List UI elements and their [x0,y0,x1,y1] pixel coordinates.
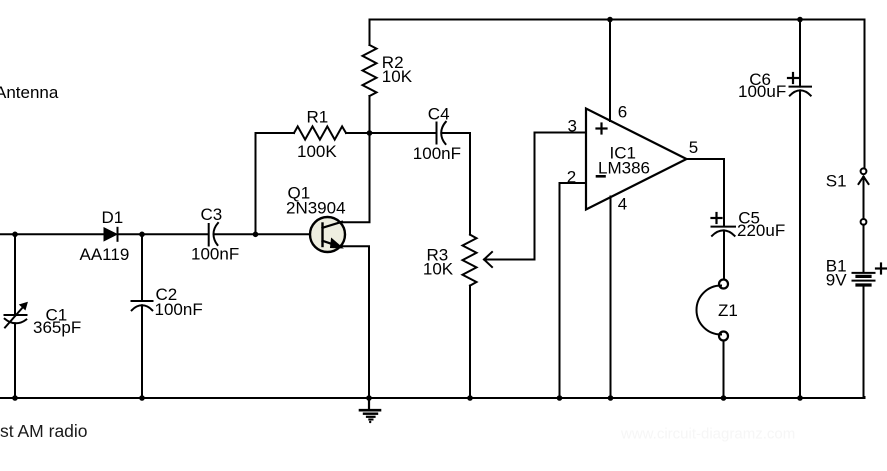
op-amp U1 LM386 triangle [586,109,687,210]
capacitor C4 100nF [437,122,446,144]
wire B1 to ground rail [863,285,865,398]
wire node to Q1 collector [342,133,370,222]
svg-text:3: 3 [568,117,577,136]
wire antenna input [0,233,104,235]
svg-text:Z1: Z1 [718,301,738,320]
wire pin 4 to ground rail [610,197,612,399]
svg-text:4: 4 [618,195,627,214]
wire C4 row [370,132,437,134]
plus sign B1 [876,264,886,274]
wire C3 to Q1 base [215,233,311,235]
capacitor C1 365pF variable [5,303,28,328]
node C3/R1 junction [253,232,259,238]
svg-text:100nF: 100nF [413,144,461,163]
wire C2 to ground rail [141,305,143,398]
svg-text:100K: 100K [297,142,337,161]
svg-text:2: 2 [567,168,576,187]
svg-text:6: 6 [618,103,627,122]
wire Q1 emitter to ground [340,246,369,398]
wire S1 to B1 [863,225,865,272]
wire R1 left leg [256,133,295,234]
svg-text:220uF: 220uF [737,221,785,240]
svg-text:9V: 9V [826,270,847,289]
minus sign op-amp inverting [597,175,605,178]
svg-text:S1: S1 [826,172,847,191]
svg-text:C3: C3 [201,205,223,224]
svg-text:10K: 10K [423,260,454,279]
wire wiper to pin 3 [535,133,586,260]
node antenna/C1 junction [12,232,18,238]
wire pin 6 from top rail [609,20,611,122]
svg-text:100uF: 100uF [738,82,786,101]
wire R1 to node [346,132,370,134]
svg-text:365pF: 365pF [33,318,81,337]
svg-text:2N3904: 2N3904 [286,199,346,218]
svg-text:5: 5 [689,138,698,157]
capacitor C3 [209,223,218,246]
node top rail C6 junction [797,17,803,23]
svg-text:www.circuit-diagramz.com: www.circuit-diagramz.com [620,426,795,443]
node rail ground junction [366,395,372,401]
svg-text:100nF: 100nF [155,300,203,319]
wire pin 5 output [687,159,725,227]
node rail C2 junction [139,395,145,401]
capacitor C2 100nF [132,301,153,310]
svg-text:D1: D1 [102,208,124,227]
diode D1 [104,228,118,241]
svg-text:AA119: AA119 [80,245,130,264]
svg-text:Antenna: Antenna [0,83,59,102]
wire R3 to ground rail [469,286,471,398]
svg-text:Simplest AM radio: Simplest AM radio [0,421,88,441]
wire C2 branch [141,234,143,301]
node D1/C2 junction [139,232,145,238]
wiper arrow R3 [484,252,535,267]
node rail pin2 junction [557,395,563,401]
wire R2 to node [369,96,371,133]
resistor R1 100K [294,126,346,139]
svg-text:LM386: LM386 [598,159,650,178]
wire D1 to C3 [118,233,209,235]
svg-text:10K: 10K [382,67,413,86]
wire C1 to ground rail [14,323,16,398]
speaker Z1 [697,280,729,341]
wire Z1 to ground rail [723,341,725,399]
wire C6 to ground rail [799,90,801,398]
wire C4 to R3 [443,133,471,235]
wire top rail [370,20,865,169]
node rail pin4 junction [608,395,614,401]
wire C6 branch [799,20,801,87]
node rail C6 junction [797,395,803,401]
capacitor C6 100uF [790,87,812,96]
plus sign C5 [712,213,722,223]
ground [360,398,380,423]
resistor R3 10K potentiometer [463,235,477,286]
battery B1 9V [853,273,875,285]
resistor R2 10K [363,45,377,96]
node rail C1 junction [12,395,18,401]
wire pin 2 [560,183,586,398]
wire bottom ground rail [0,397,865,398]
node rail Z1 junction [721,395,727,401]
wire C5 to Z1 [723,230,725,279]
plus sign op-amp non-inverting [597,124,607,134]
node rail R3 junction [467,395,473,401]
wire node C1 branch [14,234,16,315]
node R1/R2/C4 junction [367,130,373,136]
transistor Q1 2N3904 [310,217,345,252]
capacitor C5 220uF [712,227,736,236]
plus sign C6 [788,73,798,83]
svg-text:C4: C4 [428,105,450,124]
svg-text:R1: R1 [307,108,329,127]
node top rail pin6 junction [607,17,613,23]
switch S1 [859,168,869,224]
svg-text:100nF: 100nF [191,245,239,264]
